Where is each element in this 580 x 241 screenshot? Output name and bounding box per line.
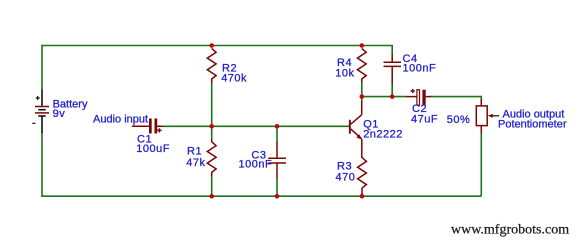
svg-text:R1: R1 [187, 146, 202, 158]
svg-text:47k: 47k [186, 157, 205, 169]
svg-text:Audio input: Audio input [93, 113, 148, 125]
svg-text:2n2222: 2n2222 [363, 129, 403, 141]
svg-text:www.mfgrobots.com: www.mfgrobots.com [451, 223, 569, 238]
svg-text:10k: 10k [335, 68, 354, 80]
svg-text:470k: 470k [221, 73, 247, 85]
svg-text:47uF: 47uF [411, 113, 438, 125]
svg-text:9v: 9v [53, 108, 66, 120]
svg-text:470: 470 [336, 171, 356, 183]
svg-text:50%: 50% [447, 114, 471, 126]
svg-text:100nF: 100nF [403, 63, 437, 75]
svg-text:100uF: 100uF [136, 143, 170, 155]
svg-text:100nF: 100nF [239, 159, 273, 171]
svg-text:Potentiometer: Potentiometer [498, 119, 567, 131]
